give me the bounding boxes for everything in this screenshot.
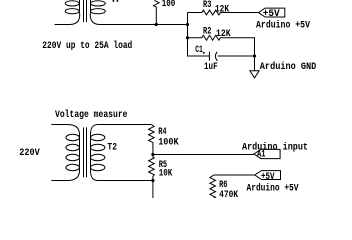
node junction dot A1 tap <box>151 153 154 156</box>
svg-text:1uF: 1uF <box>204 61 218 73</box>
svg-text:A1: A1 <box>257 149 266 161</box>
svg-text:100: 100 <box>162 0 176 10</box>
svg-text:220V: 220V <box>19 147 40 159</box>
transformer T2 left winding <box>51 125 79 181</box>
svg-text:+5V: +5V <box>261 171 275 183</box>
resistor R4 (vertical) <box>149 125 155 155</box>
node junction dot at cap/ground <box>253 54 256 57</box>
ground symbol (Arduino GND) <box>250 71 259 78</box>
+5V tag (top) <box>259 8 285 17</box>
svg-text:470K: 470K <box>219 189 239 198</box>
C1 plus polarity mark <box>203 52 205 54</box>
resistor R3 <box>188 10 259 15</box>
svg-text:Arduino GND: Arduino GND <box>260 61 317 73</box>
svg-text:100K: 100K <box>158 137 179 149</box>
svg-text:R2: R2 <box>203 26 211 38</box>
A1 tag <box>254 149 280 158</box>
node junction dot under 100 <box>155 23 158 26</box>
svg-text:C1: C1 <box>195 44 203 56</box>
svg-text:12K: 12K <box>215 4 230 16</box>
node junction dot T2 bottom <box>151 179 154 182</box>
resistor 100 (vertical, cut at top) <box>154 0 160 24</box>
node junction dot at R2 <box>186 36 189 39</box>
svg-text:R3: R3 <box>203 0 211 11</box>
wire to ground <box>254 56 256 71</box>
wire down to image edge <box>152 181 154 199</box>
resistor R5 (vertical) <box>149 155 155 181</box>
label T1 (cut off at top edge) <box>113 0 119 2</box>
wire vertical bus down to C1 branch <box>188 13 210 57</box>
resistor R2 <box>188 35 255 56</box>
svg-text:220V up to 25A load: 220V up to 25A load <box>42 40 132 52</box>
transformer T1 right winding <box>90 0 187 25</box>
svg-text:12K: 12K <box>216 28 231 40</box>
wire to A1 tag <box>153 154 254 156</box>
capacitor C1 plates <box>209 52 254 61</box>
transformer T2 right winding <box>91 125 154 181</box>
+5V tag (bottom) <box>255 171 281 180</box>
svg-text:+5V: +5V <box>263 8 281 20</box>
svg-text:T2: T2 <box>107 141 117 153</box>
svg-text:Arduino +5V: Arduino +5V <box>247 183 300 195</box>
svg-text:Voltage measure: Voltage measure <box>55 109 128 121</box>
resistor R6 (vertical, cut at bottom) with wire to +5V tag <box>210 175 255 199</box>
svg-text:Arduino input: Arduino input <box>242 141 308 153</box>
transformer T1 core <box>84 0 87 22</box>
svg-text:10K: 10K <box>159 168 173 180</box>
svg-text:Arduino +5V: Arduino +5V <box>256 20 311 32</box>
node junction dot at bus top wire <box>186 23 189 26</box>
transformer T2 core <box>84 127 87 177</box>
transformer T1 left winding <box>55 0 80 25</box>
